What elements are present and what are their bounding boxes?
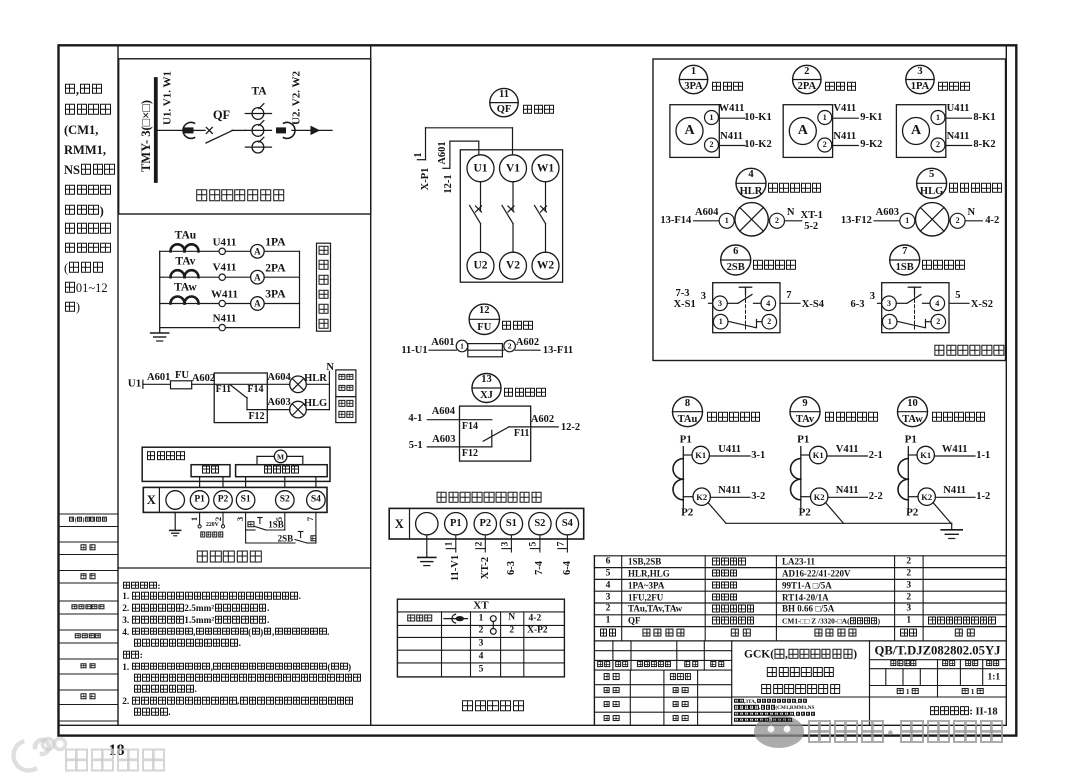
caption opening line2 <box>338 411 353 419</box>
lamp HLR terminal 2 <box>770 213 785 228</box>
mid drop number 1 <box>446 542 456 547</box>
balloon number 7 <box>902 247 907 258</box>
net label A602 fuse <box>516 338 539 349</box>
drawing title line 2 <box>766 667 834 679</box>
CT TAu terminal K1 <box>683 446 709 463</box>
net label A602 <box>192 373 215 384</box>
sheet number 第1张 <box>961 688 984 696</box>
CT TAw terminal K2 <box>908 488 935 505</box>
XT table frame <box>397 599 564 677</box>
indicator lamp HLG symbol <box>916 203 949 236</box>
dest label 5-2 b <box>804 222 818 233</box>
CT label TAv <box>175 256 195 268</box>
button label 2SB <box>278 534 294 543</box>
fuse label FU <box>175 370 189 381</box>
separator above technical notes <box>118 567 371 569</box>
dest label 1-2 ct <box>976 492 990 503</box>
switch 2SB box <box>713 283 780 333</box>
header 数量 <box>942 660 956 668</box>
wire to lamp HLR <box>267 383 290 385</box>
ammeter 1PA terminal 1 <box>931 111 945 125</box>
sidebar cell label <box>81 693 96 700</box>
XT row1 terminal 1 <box>479 614 484 624</box>
terminal name V1 <box>506 163 520 175</box>
neutral N drop <box>328 371 330 409</box>
wire phase row TAw <box>160 303 300 305</box>
CT TAv K2 label <box>814 493 825 502</box>
terminal name P1 <box>194 496 205 506</box>
label 合闸开关 <box>922 260 966 272</box>
aux contact box XJ <box>460 406 531 461</box>
lamp HLG terminal 1 <box>900 213 915 228</box>
caption char 3 <box>318 275 329 287</box>
switch 2SB terminal 3 <box>713 296 728 311</box>
src label 4-1 <box>408 414 422 425</box>
dest label 12-2 <box>561 422 580 433</box>
balloon code HLG <box>920 186 943 197</box>
switch 2SB wire number left <box>701 292 706 303</box>
terminal name U1 <box>473 163 487 175</box>
sidebar note line 1 <box>64 223 112 236</box>
breaker pole U1 contact <box>470 182 482 252</box>
net label U411 <box>213 237 237 248</box>
net label A601 fuse <box>431 338 454 349</box>
terminal name W2 <box>537 260 554 272</box>
XT row3 terminal 3 <box>479 639 484 649</box>
ammeter 2PA terminal 1 <box>818 111 832 125</box>
switch 2SB NC contact <box>728 320 762 328</box>
switch 2SB wire number right <box>786 290 791 301</box>
label ammeter 电流表 3PA <box>711 81 744 93</box>
wire HLG to N <box>306 409 329 411</box>
caption char 4 <box>318 289 329 301</box>
mid dest label 7-4 <box>535 561 546 575</box>
XT row2 terminal 2 <box>479 627 484 637</box>
breaker pole terminal U2 <box>467 252 494 279</box>
wire TAv K1 <box>827 455 868 457</box>
caption closing line2 <box>338 384 353 392</box>
strip terminal S4 <box>307 491 326 510</box>
ammeter 1PA <box>251 245 265 259</box>
feeder arrow <box>311 127 319 135</box>
sidebar note line 3 <box>64 262 104 275</box>
BOM row 3 qty <box>906 593 911 603</box>
content frame right edge <box>1005 45 1007 725</box>
wire xj out to 12-2 <box>509 426 558 428</box>
left bus of measuring loop <box>159 251 161 332</box>
BOM row 5 name <box>712 569 738 578</box>
P1 drop wire <box>198 512 201 528</box>
technical note line 6 <box>133 639 241 650</box>
dest label 13-F11 <box>543 346 573 357</box>
ammeter 3PA pin 1 <box>710 114 714 122</box>
caption char 1 <box>318 245 329 257</box>
mid dest label 11-V1 <box>451 554 462 580</box>
ammeter 1PA terminal 2 <box>931 138 945 152</box>
external supply 220V <box>206 523 219 529</box>
ammeter 1PA dial <box>903 118 930 145</box>
designer label 标准化 <box>669 673 691 681</box>
drawing title line 1 <box>744 649 857 661</box>
net label A604 xj <box>432 407 455 418</box>
lamp HLG pin 2 <box>956 217 960 225</box>
terminal strip X divider <box>158 487 160 512</box>
BOM row 4 number <box>606 581 611 591</box>
label ammeter 电流表 2PA <box>824 81 857 93</box>
separator under drawing title <box>732 696 870 698</box>
CT TAu K2 label <box>696 493 707 502</box>
CT TAu K1 label <box>695 451 706 460</box>
designer label 审 核 <box>603 701 620 709</box>
XT jumper link <box>492 622 494 629</box>
CT TAv winding bumps <box>791 459 801 500</box>
CT TAv terminal K2 <box>801 488 828 505</box>
lamp label HLG <box>304 399 327 410</box>
terminal on V411 row <box>219 274 225 280</box>
header 重量 <box>965 660 979 668</box>
ammeter 1PA box <box>896 105 945 158</box>
label breaker 断路器 <box>522 104 555 116</box>
PE earth drop <box>174 512 176 530</box>
content frame bottom edge <box>59 724 1007 726</box>
symbol balloon 7 1SB <box>890 245 920 275</box>
ammeter 3PA terminal 2 <box>705 138 719 152</box>
disc page code <box>930 706 998 718</box>
xj contact stub <box>491 430 493 447</box>
watermark text 大数跨境 <box>64 748 167 775</box>
switch 1SB right wire <box>949 302 969 304</box>
symbol balloon 5 HLG <box>917 168 947 198</box>
net label W411 <box>211 289 238 300</box>
wire fuse to aux box <box>192 383 215 385</box>
balloon code 2PA <box>798 82 816 93</box>
mid drop wire P1 <box>446 535 456 552</box>
BOM column lines <box>622 556 923 641</box>
BOM row 6 qty <box>906 557 911 567</box>
mid strip terminal P2 <box>474 513 496 535</box>
technical note line 9 <box>133 674 362 685</box>
XT row2 jumper circle <box>490 629 496 635</box>
technical note line 3 <box>122 604 269 615</box>
right bus of measuring loop <box>299 251 301 327</box>
symbol balloon 13 XJ <box>472 374 501 403</box>
motor letter M <box>277 453 284 461</box>
revision header 日 期 <box>710 661 725 669</box>
watermark text right <box>806 720 1005 748</box>
net label N <box>326 362 334 373</box>
XT row2 dest X-P2 <box>527 627 548 637</box>
balloon number 2 <box>804 67 809 78</box>
revision area row lines <box>594 651 731 713</box>
net label W411 ct <box>942 445 968 456</box>
wire TAw K1 <box>934 455 975 457</box>
switch 1SB pin 1 <box>888 318 892 326</box>
balloon number 11 <box>499 90 509 101</box>
net label A601 riser <box>438 141 449 164</box>
BOM row 4 code <box>628 581 664 590</box>
BOM row 1 name <box>712 617 755 626</box>
terminal tick at U1 <box>142 380 144 388</box>
wire HLR to N <box>306 383 329 385</box>
switch 2SB pin 1 <box>719 318 723 326</box>
busbar spec label TMY-3 <box>140 100 153 172</box>
BOM header 序号 <box>599 629 617 640</box>
net label N411 TAv <box>836 485 859 496</box>
revision area column lines <box>613 641 704 670</box>
revision header 签 字 <box>684 661 699 669</box>
breaker pole terminal W1 <box>532 155 559 182</box>
label CT 电流互感器 TAw <box>932 412 987 424</box>
wire TAv K2 <box>828 496 868 498</box>
caption cell opening indication <box>336 397 356 423</box>
title secondary schematic <box>196 550 262 565</box>
label CT 电流互感器 TAu <box>707 412 762 424</box>
CT TAw primary line <box>907 447 909 509</box>
BOM row 3 name <box>712 593 738 602</box>
BOM row lines <box>594 556 1006 641</box>
watermark logo right <box>754 715 804 748</box>
sidebar heading line 6 <box>64 184 112 197</box>
sidebar note line 5 <box>64 301 80 314</box>
main vertical divider <box>370 45 372 725</box>
switch 1SB actuator <box>908 287 920 329</box>
wire HLR right <box>785 220 802 222</box>
caption closing line1 <box>338 373 353 381</box>
pin label F12 xj <box>462 449 478 459</box>
mid PE earth drop <box>426 535 428 558</box>
symbol balloon 12 FU <box>469 304 499 334</box>
wire QF to TA <box>232 129 246 131</box>
label control circuit <box>263 465 299 476</box>
ammeter 3PA terminal 1 <box>705 111 719 125</box>
ammeter 2PA pin 2 <box>823 141 827 149</box>
balloon code 2SB <box>727 263 745 274</box>
ammeter 3PA pin 2 <box>710 141 714 149</box>
caption char 5 <box>318 304 329 316</box>
BOM row 4 qty <box>906 581 911 591</box>
technical note line 5 <box>122 627 329 638</box>
BOM row 1 code <box>628 617 641 626</box>
CT TAw K2 label <box>921 493 932 502</box>
balloon code 1PA <box>911 82 929 93</box>
symbol balloon 9 TAv <box>790 397 820 427</box>
wire 3PA pin2 <box>719 145 746 147</box>
mid earth symbol <box>418 557 436 565</box>
earth symbol under strip <box>170 530 181 535</box>
sidebar heading line 4 <box>64 144 106 157</box>
net label N411 meter2 <box>947 131 970 142</box>
technical note line 8 <box>122 662 351 673</box>
wire HLR left <box>694 220 720 222</box>
mark sub-cell columns <box>886 669 921 686</box>
doc area line 2 <box>870 668 1007 670</box>
CT TAu primary line <box>682 447 684 509</box>
switch 2SB terminal 1 <box>713 314 728 329</box>
label motor accessory <box>146 451 186 463</box>
switch 1SB left wire <box>878 302 882 304</box>
terminal name P2 <box>218 496 229 506</box>
balloon number 6 <box>733 247 738 258</box>
src label 7-3 a <box>676 288 690 299</box>
wire 3PA pin1 <box>719 117 746 119</box>
technical note line 2 <box>122 592 301 603</box>
terminal name S1 <box>241 496 251 506</box>
wire 2PA pin2 <box>832 145 859 147</box>
designer label 绘 图 <box>603 687 620 695</box>
wire U1 to fuse FU <box>143 383 171 385</box>
phase label U1.V1.W1 <box>162 71 173 125</box>
terminal strip X <box>143 487 327 512</box>
XT table header <box>473 600 488 611</box>
doc area line 3 <box>870 685 1007 687</box>
wire 1PA pin1 <box>945 117 972 119</box>
BOM row 3 model <box>782 593 829 602</box>
technical note line 4 <box>122 616 269 627</box>
title secondary wiring diagram <box>461 700 525 714</box>
ammeter 2PA terminal 2 <box>818 138 832 152</box>
dest label 8-K2 <box>973 140 995 151</box>
balloon code 1SB <box>896 263 914 274</box>
CT TAv terminal K1 <box>801 446 827 463</box>
mid terminal name S4 <box>562 519 573 530</box>
ammeter label 1PA <box>265 237 285 249</box>
wire busbar to drawout contact <box>156 129 183 131</box>
designer label 批 准 <box>672 701 689 709</box>
switch 1SB terminal 1 <box>882 314 897 329</box>
dest label 12-1 <box>444 174 455 193</box>
terminal on N411 row <box>219 324 225 330</box>
mid drop wire S2 <box>530 535 540 552</box>
breaker QF blade <box>206 130 233 143</box>
balloon number 13 <box>481 375 492 386</box>
net label U411 meter <box>947 104 970 115</box>
lamp HLR pin 2 <box>775 217 779 225</box>
drawing outer border <box>59 45 1017 735</box>
net label A604 lamp <box>695 208 718 219</box>
breaker pole V1 contact <box>502 182 514 252</box>
auxiliary contact box F11-F14-F12 <box>214 373 267 423</box>
wire phase row TAu <box>160 250 300 252</box>
caption char 2 <box>318 260 329 272</box>
net label V411 meter <box>833 104 856 115</box>
switch 1SB pin 3 <box>887 300 891 308</box>
mid terminal name S1 <box>506 519 517 530</box>
XT row1 dest 4-2 <box>529 614 542 624</box>
title note line 2 <box>734 705 814 711</box>
net label N411 TAw <box>943 485 966 496</box>
wire fuse terminal 2 to 13-F11 <box>515 349 540 351</box>
BOM row 6 model <box>782 558 815 567</box>
terminal on W411 row <box>219 300 225 306</box>
sidebar cell label <box>81 544 96 551</box>
switch 1SB pin 4 <box>935 300 939 308</box>
sidebar cell label <box>81 573 96 580</box>
title motor-operation terminal strip <box>436 492 543 505</box>
XT table row lines <box>397 612 564 663</box>
drop wire to terminal x=199.6 <box>199 477 201 488</box>
mid dest label 6-3 <box>507 561 518 575</box>
dest label X-P1 <box>421 167 432 190</box>
switch 1SB terminal 2 <box>931 314 946 329</box>
breaker pole terminal W2 <box>532 252 559 279</box>
revision header 更改文件号 <box>637 661 671 669</box>
strip terminal S2 <box>276 491 295 510</box>
dest label X-S2 <box>971 300 993 311</box>
lamp HLR pin 1 <box>725 217 729 225</box>
XT row1 N <box>508 614 515 624</box>
net label U411 ct <box>718 445 741 456</box>
mid drop number 2 <box>475 542 485 547</box>
terminal on U411 row <box>219 248 225 254</box>
wire through fuse <box>468 349 504 351</box>
dest label 8-K1 <box>973 113 995 124</box>
current transformer TAw symbol <box>171 297 199 304</box>
label aux contact 辅助触点 <box>503 387 547 399</box>
S2 drop number 5 <box>275 517 284 521</box>
busbar TMY <box>154 79 158 181</box>
CT TAv primary line <box>800 447 802 509</box>
header 图样标记 <box>890 660 917 668</box>
fuse terminal 2 <box>504 340 516 352</box>
net label A601 <box>147 373 170 384</box>
balloon number 10 <box>907 398 918 409</box>
technical note line 11 <box>122 697 354 708</box>
BOM row 3 code <box>628 593 663 602</box>
ammeter 2PA <box>251 270 265 284</box>
ammeter letter A (3PA) <box>254 299 261 308</box>
wire through aux box top <box>214 383 267 385</box>
header 比例 <box>986 660 1000 668</box>
net label N411 TAu <box>718 485 741 496</box>
fuse terminal 1 <box>456 340 468 352</box>
wire neutral row N411 <box>160 327 300 329</box>
BOM row 6 number <box>606 557 611 567</box>
CT TAv K1 label <box>813 451 824 460</box>
CT TAv P2 <box>799 507 811 518</box>
S1 drop wire <box>245 512 247 543</box>
power supply box <box>191 465 230 477</box>
dest label 2-1 ct <box>869 450 883 461</box>
S2 drop wire <box>284 512 286 530</box>
CT TAu P1 <box>680 434 692 445</box>
terminal strip X (middle) <box>389 508 584 539</box>
CT TAw K1 label <box>920 451 931 460</box>
wire 5-1 into box <box>427 446 492 448</box>
balloon code QF <box>497 105 512 116</box>
BOM row 5 qty <box>906 569 911 579</box>
wire to breaker QF <box>194 129 206 131</box>
net label N HLR <box>787 207 795 218</box>
designer label 审 定 <box>672 687 689 695</box>
BOM row 3 number <box>606 593 611 603</box>
BOM row 1 model <box>782 617 880 624</box>
breaker QF fixed contact x <box>206 127 212 133</box>
switch 2SB pin 4 <box>766 300 770 308</box>
document number <box>875 644 1001 657</box>
XT row2 N-2 <box>509 627 514 637</box>
terminal name W1 <box>537 163 554 175</box>
mid terminal name P2 <box>479 519 491 530</box>
S1 drop number 3 <box>236 517 245 521</box>
pin label F11 <box>216 385 232 395</box>
BOM row 2 qty <box>906 605 911 615</box>
wire U1 riser to 12-1/A601 <box>443 141 479 168</box>
wire HLG left <box>874 220 900 222</box>
symbol balloon 10 TAw <box>898 397 928 427</box>
mid drop number 5 <box>530 542 540 547</box>
dest label 3-1 ct <box>751 450 765 461</box>
breaker pole terminal U1 <box>467 155 494 182</box>
